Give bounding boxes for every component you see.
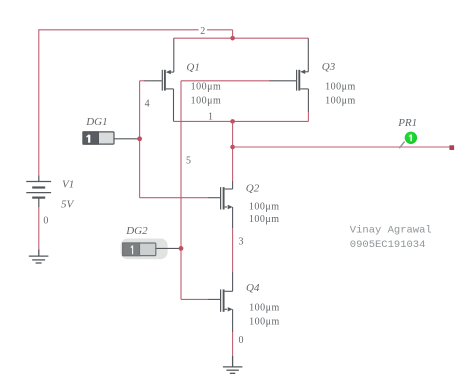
ground under Q4 xyxy=(223,356,243,373)
transistor Q3 (PMOS) xyxy=(269,38,308,112)
digital constant DG2 xyxy=(123,243,181,256)
svg-text:3: 3 xyxy=(239,236,244,247)
terminal endpoint xyxy=(449,145,454,150)
wire net3 Q2 source to Q4 drain xyxy=(232,228,234,272)
wire net2 top horizontal xyxy=(38,29,232,31)
probe PR1 pointer xyxy=(399,142,404,149)
wire net5 to Q4 gate xyxy=(181,298,208,300)
svg-text:Q3: Q3 xyxy=(322,61,336,73)
transistor Q2 (NMOS) xyxy=(208,181,233,228)
svg-text:100μm: 100μm xyxy=(249,302,280,313)
node junction DG1 xyxy=(137,136,142,141)
wire net1 to probe terminal xyxy=(233,146,451,148)
transistor Q1 (PMOS) xyxy=(144,38,174,121)
svg-text:2: 2 xyxy=(200,26,205,37)
svg-text:100μm: 100μm xyxy=(191,96,222,107)
svg-text:V1: V1 xyxy=(62,179,74,191)
node junction net1 output tee xyxy=(230,145,235,150)
wire net4 vertical xyxy=(139,81,141,198)
svg-text:0905EC191034: 0905EC191034 xyxy=(350,239,426,251)
node junction DG2 xyxy=(179,246,184,251)
wire net2 drop to rail xyxy=(232,30,234,38)
wire net2 rail Q1-Q3 sources xyxy=(174,37,308,39)
wire net5 vertical xyxy=(180,81,182,300)
node junction net2 xyxy=(230,36,235,41)
wire net0 Q4 source to ground xyxy=(232,332,234,356)
wire net4 gate Q1 xyxy=(140,80,145,82)
battery V1 xyxy=(26,175,51,207)
svg-text:Q4: Q4 xyxy=(246,282,260,294)
svg-text:1: 1 xyxy=(208,111,213,122)
wire net1 Q3 drain segment xyxy=(307,112,309,121)
wire net4 to Q2 gate xyxy=(140,197,208,199)
digital constant DG2 selection halo xyxy=(121,239,168,260)
ground under V1 xyxy=(29,250,49,264)
svg-text:DG1: DG1 xyxy=(85,116,107,128)
svg-text:Q1: Q1 xyxy=(186,61,199,73)
digital constant DG1 xyxy=(83,132,140,144)
net label 2 xyxy=(199,26,207,36)
svg-text:100μm: 100μm xyxy=(191,82,222,93)
node junction net1 xyxy=(230,119,235,124)
wire net1 down to Q2 xyxy=(232,121,234,181)
svg-text:100μm: 100μm xyxy=(249,316,280,327)
svg-text:100μm: 100μm xyxy=(249,201,280,212)
wire net5 gate Q3 xyxy=(181,80,270,82)
wire net2 vertical from battery to top xyxy=(38,30,40,176)
svg-text:DG2: DG2 xyxy=(125,225,148,237)
svg-text:0: 0 xyxy=(43,216,48,227)
svg-text:Q2: Q2 xyxy=(246,182,260,194)
svg-text:0: 0 xyxy=(239,335,244,346)
svg-text:5: 5 xyxy=(186,155,191,166)
transistor Q4 (NMOS) xyxy=(208,272,233,332)
svg-text:100μm: 100μm xyxy=(325,96,356,107)
svg-text:Vinay Agrawal: Vinay Agrawal xyxy=(350,224,432,236)
svg-text:PR1: PR1 xyxy=(397,117,417,129)
svg-text:4: 4 xyxy=(145,98,150,109)
probe PR1 xyxy=(405,132,417,144)
svg-text:100μm: 100μm xyxy=(325,82,356,93)
wire net1 drain rail xyxy=(174,120,309,122)
svg-text:5V: 5V xyxy=(61,198,75,210)
svg-text:100μm: 100μm xyxy=(249,214,280,225)
wire net0 battery to ground xyxy=(38,207,40,250)
